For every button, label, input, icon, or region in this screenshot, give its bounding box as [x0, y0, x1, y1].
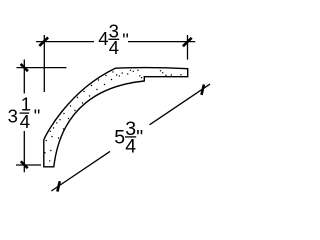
svg-text:": ": [122, 30, 129, 51]
stipple dots inside molding band: [43, 70, 182, 164]
dimension 4 3/4: dimension line: [36, 41, 195, 43]
dimension 5 3/4: upper tick: [202, 85, 204, 95]
dimension 4 3/4: left tick: [39, 37, 48, 46]
dimension 3 1/4: dimension line: [23, 60, 25, 173]
dimension 5 3/4: lower tick: [57, 181, 59, 191]
dimension 4 3/4: right extension line: [187, 35, 189, 60]
dimension 4 3/4: text: [98, 21, 129, 59]
svg-text:4: 4: [125, 136, 136, 158]
dimension 3 1/4: bottom tick: [21, 161, 28, 168]
dimension 3 1/4: top extension line: [17, 67, 67, 69]
svg-text:": ": [34, 106, 41, 127]
dimension 5 3/4: text: [114, 118, 143, 157]
dimension 3 1/4: text: [8, 94, 41, 133]
molding profile outline: [44, 68, 188, 167]
dimension 3 1/4: top tick: [21, 64, 28, 71]
svg-text:": ": [136, 126, 143, 148]
svg-text:4: 4: [109, 37, 119, 58]
dimension 5 3/4: dimension line (diagonal): [51, 84, 210, 191]
dimension 3 1/4: bottom extension line: [16, 164, 41, 166]
svg-text:4: 4: [98, 28, 108, 49]
svg-text:3: 3: [8, 106, 18, 127]
svg-text:5: 5: [114, 127, 125, 149]
dimension 4 3/4: left extension line: [43, 35, 45, 92]
dimension 4 3/4: right tick: [183, 38, 192, 47]
svg-text:4: 4: [20, 111, 30, 132]
